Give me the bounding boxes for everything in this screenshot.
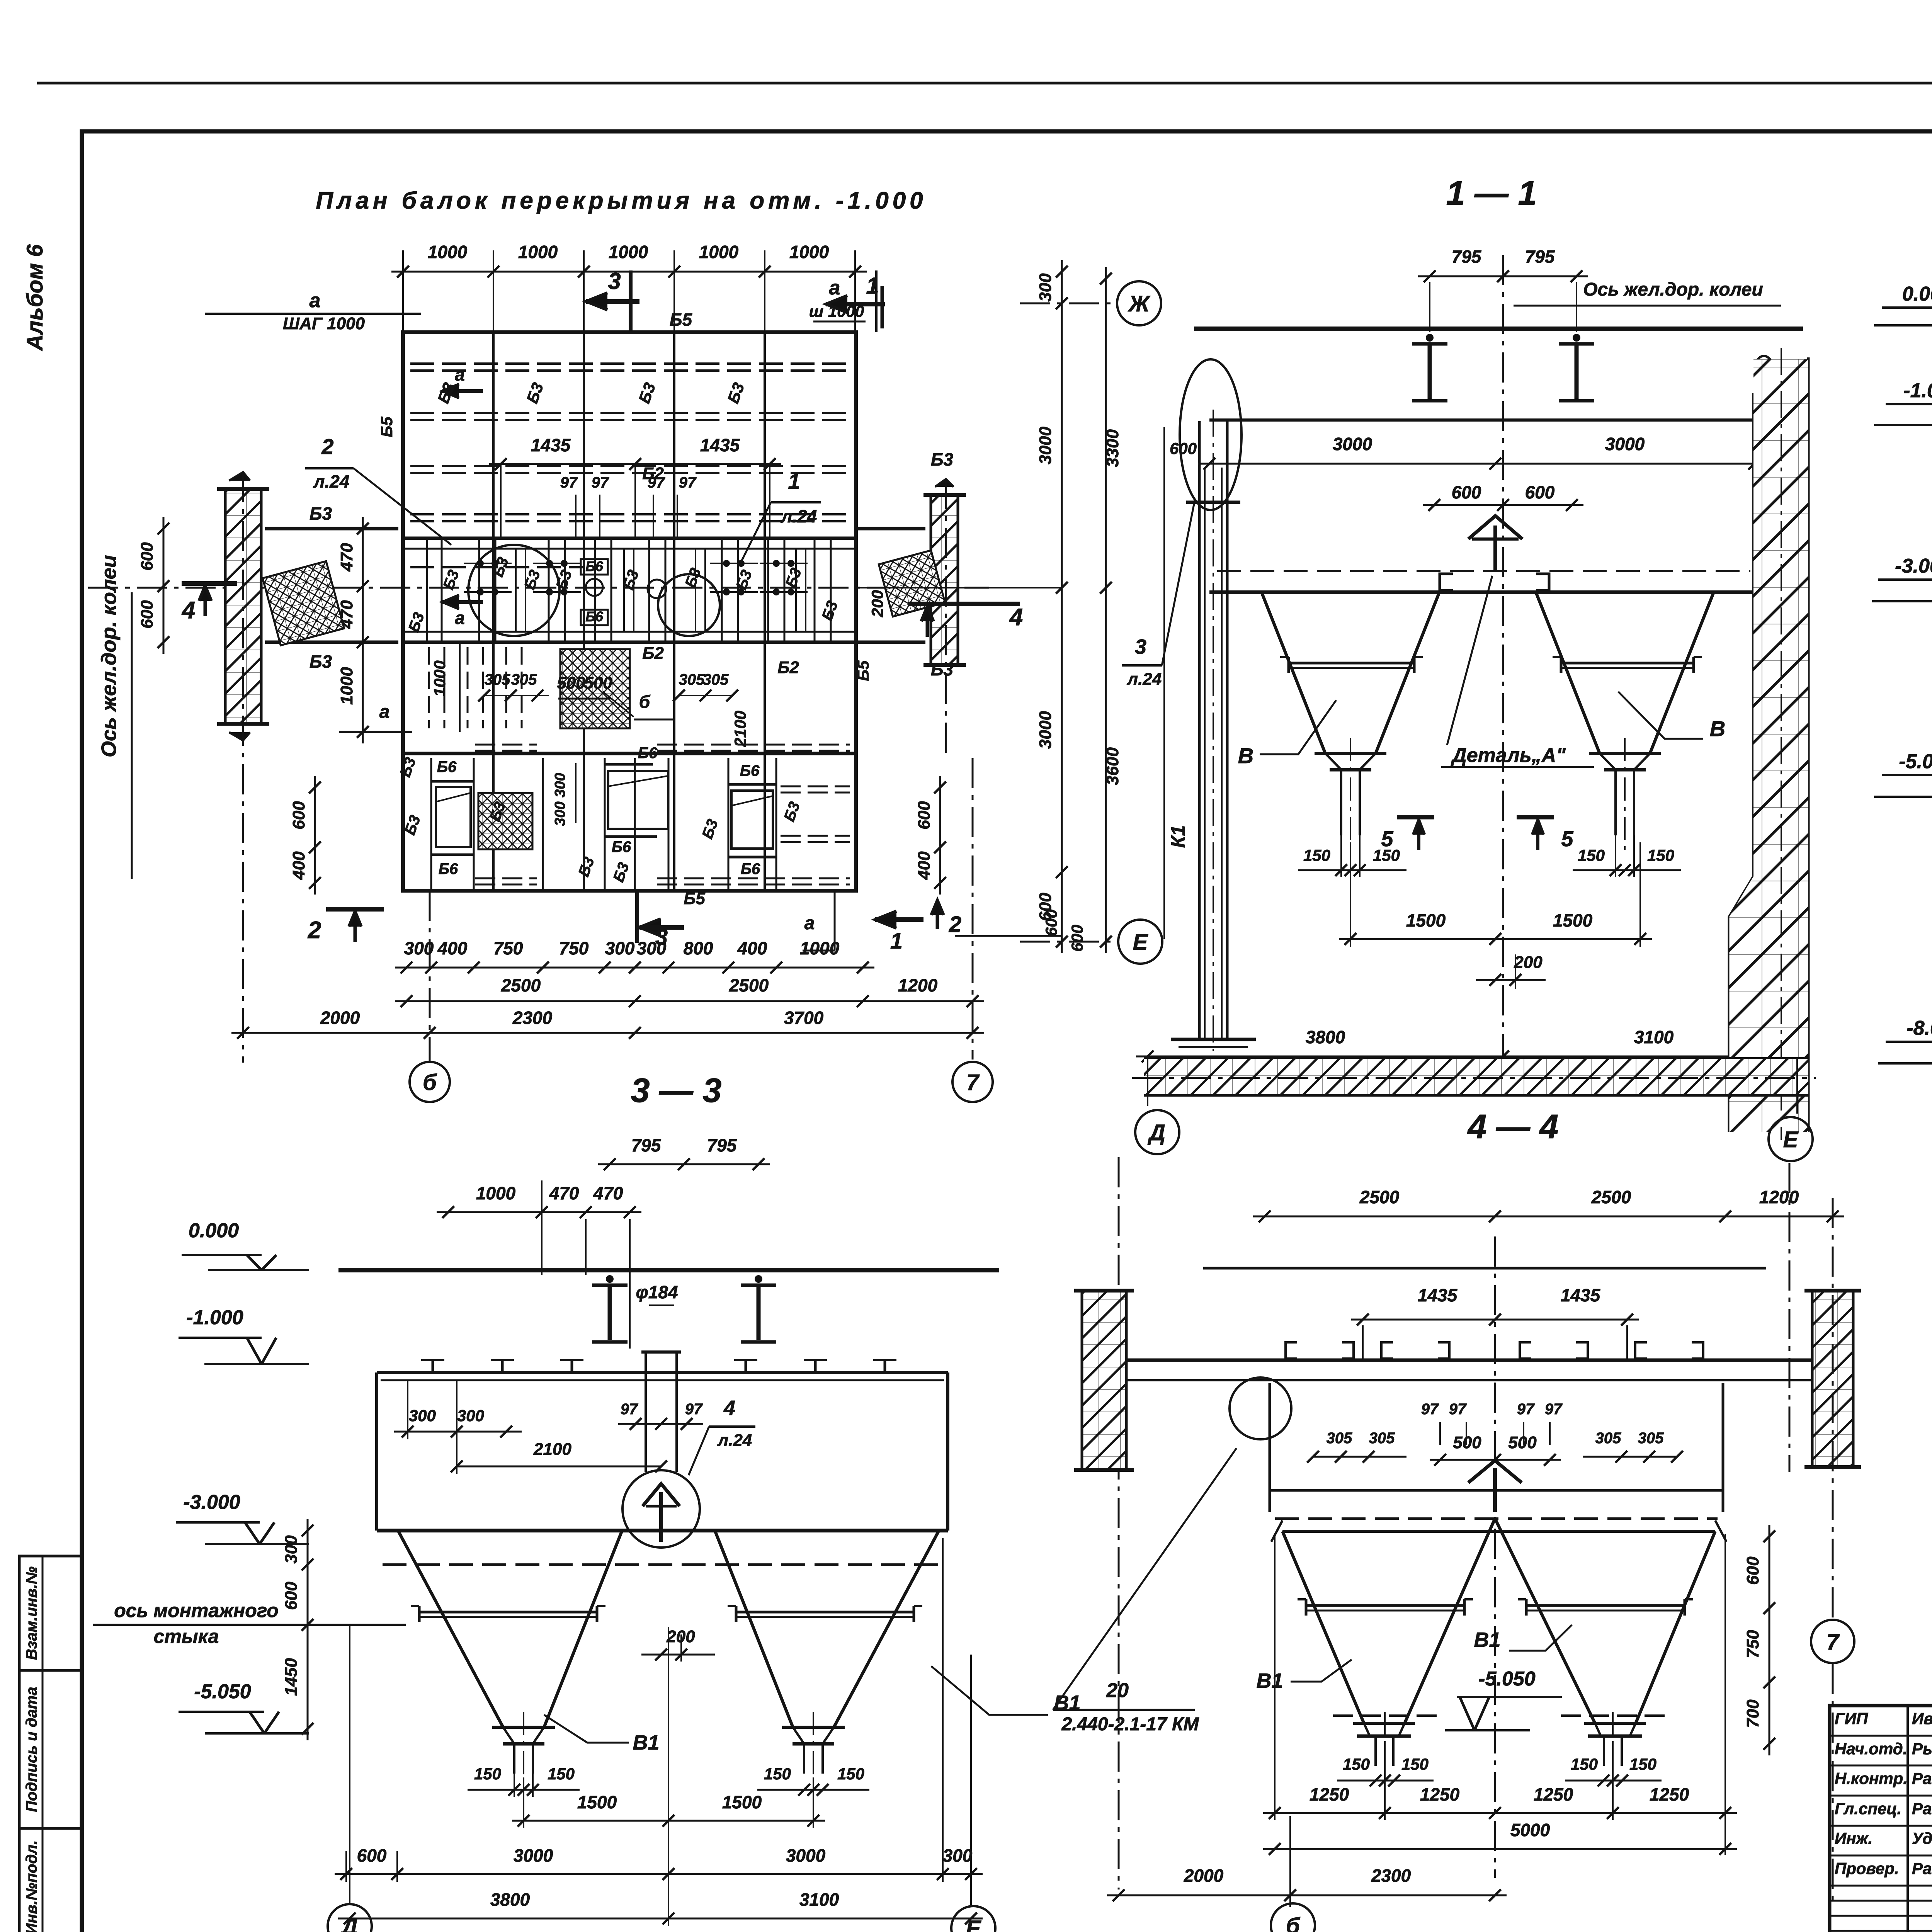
svg-text:-8.000: -8.000 <box>1906 1017 1932 1039</box>
title block signature grid <box>1830 1735 1932 1737</box>
svg-text:305: 305 <box>1369 1430 1395 1447</box>
small B6 boxes center <box>581 559 608 575</box>
svg-text:Е: Е <box>1133 930 1149 955</box>
svg-text:20: 20 <box>1106 1679 1129 1702</box>
top dim 2500 2500 1200 (4-4) <box>1253 1216 1844 1218</box>
svg-text:План балок перекрытия на от: План балок перекрытия на отм. -1.000 <box>316 187 927 214</box>
dashed level in tank (1-1) <box>1217 570 1750 572</box>
bottom dim chain row 1 <box>395 967 874 969</box>
chute arrow (4-4) <box>1468 1461 1522 1483</box>
svg-text:400: 400 <box>437 938 468 958</box>
chute (3-3) <box>645 1352 647 1472</box>
svg-text:Б2: Б2 <box>642 464 664 483</box>
tank bottom (1-1) <box>1209 590 1754 594</box>
svg-text:-5.050: -5.050 <box>194 1680 251 1703</box>
svg-text:Е: Е <box>966 1916 982 1932</box>
svg-text:470: 470 <box>337 600 356 629</box>
dim 1435 1435 (4-4) <box>1351 1319 1639 1321</box>
grid bubble E (row) <box>1118 920 1162 964</box>
svg-text:3000: 3000 <box>1036 427 1055 464</box>
svg-text:ось монтажного: ось монтажного <box>114 1600 278 1621</box>
svg-text:795: 795 <box>707 1135 737 1155</box>
svg-text:Б3: Б3 <box>310 651 332 672</box>
left vertical dims 600 400 <box>314 776 316 895</box>
svg-text:3800: 3800 <box>1306 1027 1345 1047</box>
svg-text:Рашевский: Рашевский <box>1912 1859 1932 1878</box>
svg-text:400: 400 <box>737 938 767 958</box>
left funnel B1 (4-4) <box>1282 1531 1364 1723</box>
svg-text:Б2: Б2 <box>777 658 799 677</box>
svg-text:a: a <box>310 289 321 312</box>
section cut 1 (top right) <box>826 302 885 306</box>
svg-text:305: 305 <box>1327 1430 1352 1447</box>
svg-text:2000: 2000 <box>1184 1866 1224 1886</box>
svg-text:4 — 4: 4 — 4 <box>1467 1107 1559 1146</box>
svg-text:600: 600 <box>1525 482 1555 502</box>
column K1 (1-1) <box>1198 421 1201 1039</box>
svg-text:Альбом 6: Альбом 6 <box>22 244 48 352</box>
svg-text:150: 150 <box>548 1765 575 1783</box>
ground line (4-4) <box>1203 1267 1766 1270</box>
svg-text:1250: 1250 <box>1650 1784 1689 1804</box>
svg-text:300: 300 <box>457 1406 484 1425</box>
top band dashed beams <box>410 362 850 365</box>
left funnel B1 (3-3) <box>398 1531 503 1727</box>
svg-text:Инж.: Инж. <box>1835 1829 1872 1847</box>
dim 795 795 (1-1) <box>1418 276 1588 277</box>
svg-text:1000: 1000 <box>518 242 558 262</box>
svg-text:a: a <box>455 364 465 384</box>
rail level line 0.000 (1-1) <box>1194 327 1803 331</box>
svg-text:б: б <box>639 692 651 712</box>
extension lines (1-1 dims) <box>1350 842 1351 947</box>
svg-text:400: 400 <box>289 851 308 880</box>
rail I-beam left (1-1) <box>1426 334 1434 342</box>
section cut 4 right <box>908 602 1020 606</box>
bolt clusters <box>477 560 484 567</box>
svg-text:2.440-2.1-17 КМ: 2.440-2.1-17 КМ <box>1061 1714 1199 1735</box>
section cut 3 (top) <box>586 299 639 304</box>
svg-text:2500: 2500 <box>729 975 769 995</box>
svg-text:97: 97 <box>1545 1401 1563 1418</box>
beams B3 crossing gap left <box>265 527 398 531</box>
svg-text:Б6: Б6 <box>612 838 631 855</box>
sub band below B2 <box>403 752 856 755</box>
svg-text:4: 4 <box>723 1396 735 1420</box>
row axis E dash segment <box>1020 941 1117 943</box>
central band (B2 beams with bolted joints) <box>403 537 856 540</box>
grid bubbles D E (3-3) <box>349 1625 350 1905</box>
svg-text:л.24: л.24 <box>1127 670 1162 689</box>
svg-text:a: a <box>379 702 390 722</box>
svg-text:1435: 1435 <box>1561 1285 1601 1305</box>
floor hatch (1-1) <box>1144 1057 1808 1060</box>
svg-text:ГИП: ГИП <box>1835 1709 1868 1728</box>
left wall (4-4) <box>1082 1291 1126 1470</box>
svg-text:-3.000: -3.000 <box>183 1491 240 1514</box>
balloon detail capsule on column top <box>1180 359 1242 510</box>
extension lines (3-3 dims) <box>523 1777 524 1828</box>
svg-text:2: 2 <box>949 912 961 937</box>
svg-text:3000: 3000 <box>786 1845 826 1866</box>
channel brackets on beam (4-4) <box>1286 1342 1297 1359</box>
svg-text:500: 500 <box>1453 1433 1481 1452</box>
svg-text:Инв.№подл.: Инв.№подл. <box>23 1840 40 1932</box>
svg-text:500: 500 <box>1508 1433 1537 1452</box>
svg-text:3300: 3300 <box>1103 429 1122 467</box>
B6 box 1 <box>436 787 471 847</box>
svg-text:1200: 1200 <box>898 975 938 995</box>
svg-text:750: 750 <box>1743 1630 1762 1658</box>
svg-text:φ184: φ184 <box>636 1282 678 1302</box>
dashed level (4-4) <box>1275 1517 1718 1520</box>
svg-text:-5.050: -5.050 <box>1478 1668 1536 1690</box>
center axis (4-4) <box>1494 1236 1496 1878</box>
dim 600 3000 3000 300 (3-3) <box>335 1873 983 1875</box>
svg-text:Б3: Б3 <box>931 449 954 469</box>
svg-text:200: 200 <box>1514 953 1543 972</box>
dim 1000 470 470 (3-3) <box>437 1211 641 1213</box>
svg-text:В1: В1 <box>1256 1669 1283 1692</box>
svg-text:В1: В1 <box>633 1731 659 1754</box>
left vertical dims 470 470 1000 <box>362 517 364 743</box>
svg-text:200: 200 <box>868 590 886 617</box>
svg-text:Н.контр.: Н.контр. <box>1835 1769 1908 1787</box>
svg-text:Б6: Б6 <box>585 558 603 574</box>
hatch patch sub band <box>560 649 630 728</box>
svg-text:ШАГ 1000: ШАГ 1000 <box>283 314 365 333</box>
svg-text:3: 3 <box>608 268 621 294</box>
left vertical dims 600 600 <box>163 517 165 654</box>
svg-text:Б5: Б5 <box>670 310 693 330</box>
svg-text:2: 2 <box>321 434 333 459</box>
svg-text:a: a <box>804 913 815 934</box>
svg-text:Б3: Б3 <box>931 659 954 679</box>
svg-text:3000: 3000 <box>1333 434 1372 454</box>
wall axis E line (4-4) <box>1789 1163 1791 1472</box>
svg-text:7: 7 <box>966 1070 980 1095</box>
svg-text:0.000: 0.000 <box>189 1219 239 1242</box>
sheet top edge line <box>37 82 1932 85</box>
svg-text:305: 305 <box>1638 1430 1664 1447</box>
rails (3-3) <box>606 1275 614 1283</box>
tank (4-4) <box>1270 1489 1723 1492</box>
plan grid verticals <box>492 332 495 891</box>
right wall (4-4) <box>1812 1291 1853 1467</box>
a cut mark central band <box>442 600 483 604</box>
svg-text:Ж: Ж <box>1128 291 1151 316</box>
svg-text:Удалова: Удалова <box>1912 1829 1932 1847</box>
svg-text:2500: 2500 <box>501 975 541 995</box>
svg-text:Ось жел.дор. колеи: Ось жел.дор. колеи <box>1583 279 1763 300</box>
grid bubble Zh <box>1117 281 1161 325</box>
section 5 marks (1-1) <box>1397 815 1434 820</box>
svg-text:150: 150 <box>1571 1755 1598 1773</box>
svg-text:В: В <box>1710 716 1725 741</box>
B6 box 2 <box>608 771 668 829</box>
svg-text:600: 600 <box>1170 439 1197 457</box>
tank top (1-1) <box>1209 418 1754 422</box>
svg-text:1000: 1000 <box>428 242 468 262</box>
svg-text:3100: 3100 <box>1634 1027 1674 1047</box>
svg-text:3800: 3800 <box>490 1889 530 1910</box>
left funnel B (1-1) <box>1262 592 1325 753</box>
svg-text:1250: 1250 <box>1310 1784 1349 1804</box>
dim 3800 3100 (3-3) <box>338 1918 983 1920</box>
joint detail circle left <box>468 545 560 636</box>
chute arrow detail A (1-1) <box>1468 516 1522 539</box>
right funnel B1 (4-4) <box>1636 1531 1715 1723</box>
right vertical dims 600 400 600 <box>939 776 941 895</box>
section cut 3 bottom <box>635 893 639 943</box>
svg-text:1250: 1250 <box>1420 1784 1460 1804</box>
B6 box 3 <box>731 791 773 849</box>
wall axis D line (4-4) <box>1118 1157 1120 1889</box>
a cut mark top band <box>442 389 483 393</box>
svg-text:1500: 1500 <box>1553 910 1593 930</box>
svg-text:600: 600 <box>282 1582 301 1610</box>
svg-text:5000: 5000 <box>1510 1820 1550 1840</box>
right funnel B1 (3-3) <box>715 1531 793 1727</box>
svg-text:795: 795 <box>631 1135 662 1155</box>
svg-text:1435: 1435 <box>700 435 740 455</box>
svg-text:1000: 1000 <box>476 1183 516 1203</box>
svg-text:600: 600 <box>138 542 156 571</box>
right vertical chain 600 750 700 (4-4) <box>1769 1525 1770 1755</box>
grid bubbles D E (bottom of 1-1) <box>1147 1059 1148 1106</box>
svg-text:3100: 3100 <box>799 1889 839 1910</box>
plan top dimension chain 1000 x5 <box>391 271 867 273</box>
svg-text:300: 300 <box>552 801 568 826</box>
svg-text:305: 305 <box>703 671 729 688</box>
crosshatch patch left <box>263 561 344 645</box>
svg-text:470: 470 <box>337 543 356 572</box>
circled arrow detail (3-3) <box>622 1470 700 1548</box>
svg-text:Е: Е <box>1783 1127 1799 1152</box>
svg-text:150: 150 <box>1343 1755 1370 1773</box>
svg-text:305: 305 <box>485 671 510 688</box>
plan outline <box>403 332 856 891</box>
left vertical chain 300 600 1450 (3-3) <box>307 1519 309 1740</box>
dim 1250 x4 (4-4) <box>1263 1812 1737 1814</box>
svg-text:1200: 1200 <box>1759 1187 1799 1207</box>
grid bubble b (4-4) <box>1289 1824 1291 1903</box>
svg-text:2100: 2100 <box>731 711 749 747</box>
svg-text:л.24: л.24 <box>313 471 350 492</box>
svg-text:300: 300 <box>552 773 568 797</box>
svg-text:2: 2 <box>308 917 321 944</box>
svg-text:-1.000: -1.000 <box>1903 379 1932 402</box>
section cut 4 left <box>182 581 237 586</box>
svg-text:150: 150 <box>1401 1755 1429 1773</box>
svg-text:a: a <box>455 608 465 628</box>
main title block <box>1830 1706 1932 1932</box>
svg-text:Д: Д <box>1147 1120 1165 1145</box>
svg-text:150: 150 <box>1629 1755 1656 1773</box>
joint detail circle right <box>658 574 720 636</box>
dim 600 600 (1-1) <box>1423 504 1583 506</box>
dim 2000 2300 (4-4) <box>1107 1895 1507 1896</box>
svg-text:600: 600 <box>138 600 156 629</box>
svg-text:0.000: 0.000 <box>1902 283 1932 305</box>
svg-text:Нач.отд.: Нач.отд. <box>1835 1740 1907 1758</box>
svg-text:305: 305 <box>679 671 705 688</box>
extra dashed row above central band <box>410 566 584 568</box>
svg-text:1435: 1435 <box>531 435 571 455</box>
svg-text:Б6: Б6 <box>439 861 458 878</box>
svg-text:3000: 3000 <box>1036 711 1055 749</box>
svg-text:97: 97 <box>1517 1401 1535 1418</box>
svg-text:Гл.спец.: Гл.спец. <box>1835 1799 1901 1818</box>
svg-text:600: 600 <box>1068 925 1086 952</box>
bottom band with B6 girders <box>430 758 432 891</box>
svg-text:300: 300 <box>605 938 635 958</box>
section cuts 1 2 bottom-right <box>875 917 923 922</box>
svg-text:470: 470 <box>549 1183 579 1203</box>
tank (3-3) <box>377 1371 948 1374</box>
svg-text:150: 150 <box>1578 846 1605 864</box>
bottom dim chain row 2 <box>395 1000 984 1002</box>
svg-text:3600: 3600 <box>1103 747 1122 785</box>
svg-text:97: 97 <box>621 1401 638 1418</box>
svg-text:л.24: л.24 <box>781 506 817 526</box>
svg-text:Б6: Б6 <box>741 861 760 878</box>
svg-text:3000: 3000 <box>1605 434 1645 454</box>
svg-text:б: б <box>1286 1913 1301 1932</box>
svg-text:В1: В1 <box>1474 1628 1500 1651</box>
svg-text:Б5: Б5 <box>378 417 396 437</box>
extension lines (4-4 dims) <box>1274 1534 1276 1820</box>
svg-text:1250: 1250 <box>1534 1784 1573 1804</box>
svg-text:150: 150 <box>1373 846 1400 864</box>
svg-text:Б3: Б3 <box>310 503 332 524</box>
right wall (1-1) <box>1729 393 1753 1132</box>
funnel support line (4-4) <box>1282 1530 1715 1533</box>
svg-text:600: 600 <box>1036 893 1055 921</box>
svg-text:1000: 1000 <box>337 667 356 705</box>
left wall section (hatched) <box>225 489 261 724</box>
svg-text:700: 700 <box>1743 1699 1762 1728</box>
svg-text:1000: 1000 <box>789 242 829 262</box>
vertical chain B 3300/3600 <box>1105 267 1107 953</box>
svg-text:Иванова: Иванова <box>1912 1709 1932 1728</box>
svg-text:600: 600 <box>357 1845 387 1866</box>
svg-text:3000: 3000 <box>514 1845 553 1866</box>
svg-text:97: 97 <box>1421 1401 1439 1418</box>
svg-text:Б5: Б5 <box>684 889 705 908</box>
svg-text:305: 305 <box>511 671 537 688</box>
svg-text:Б2: Б2 <box>642 644 664 663</box>
svg-text:750: 750 <box>559 938 589 958</box>
right funnel B (1-1) <box>1536 592 1600 753</box>
svg-text:600: 600 <box>1743 1556 1762 1585</box>
svg-text:750: 750 <box>493 938 523 958</box>
svg-text:стыка: стыка <box>154 1626 219 1647</box>
svg-text:2500: 2500 <box>1359 1187 1400 1207</box>
vertical chain A 300/3000/3000/600 <box>1061 260 1063 953</box>
dim 1500 1500 (1-1) <box>1339 938 1652 940</box>
svg-text:Подпись и дата: Подпись и дата <box>23 1687 40 1812</box>
svg-text:2100: 2100 <box>533 1440 571 1459</box>
dim 1435 1435 <box>489 463 781 465</box>
svg-text:1500: 1500 <box>577 1792 617 1812</box>
dim 1500 1500 (3-3) <box>512 1820 825 1822</box>
svg-text:97: 97 <box>560 474 578 491</box>
right wall section (hatched) <box>931 495 958 665</box>
dim 3800 3100 (1-1) <box>1136 1056 1809 1058</box>
joint detail circle (4-4) <box>1230 1378 1291 1439</box>
svg-text:Рыбкина: Рыбкина <box>1912 1740 1932 1758</box>
svg-text:Ось жел.дор. колеи: Ось жел.дор. колеи <box>97 555 121 757</box>
svg-text:1: 1 <box>890 929 903 954</box>
svg-text:-5.050: -5.050 <box>1899 750 1932 773</box>
rail axis horizontal dash-dot through plan <box>88 587 989 589</box>
main beam (4-4) <box>1126 1359 1812 1362</box>
svg-text:150: 150 <box>1647 846 1674 864</box>
dashed rows bottom band <box>475 744 537 746</box>
svg-text:150: 150 <box>764 1765 791 1783</box>
svg-text:400: 400 <box>915 851 934 880</box>
svg-text:300: 300 <box>282 1535 301 1564</box>
svg-text:2300: 2300 <box>1371 1866 1411 1886</box>
svg-text:7: 7 <box>1827 1629 1840 1655</box>
svg-text:600: 600 <box>289 801 308 830</box>
svg-text:Рашевский: Рашевский <box>1912 1799 1932 1818</box>
svg-text:1435: 1435 <box>1418 1285 1458 1305</box>
svg-text:500: 500 <box>584 673 612 692</box>
dim 3000 3000 (1-1) <box>1198 463 1766 465</box>
svg-text:97: 97 <box>592 474 609 491</box>
svg-text:В: В <box>1238 743 1253 768</box>
crosshatch patch right <box>879 550 945 616</box>
svg-text:600: 600 <box>1452 482 1481 502</box>
svg-text:1000: 1000 <box>430 660 449 696</box>
svg-text:4: 4 <box>1009 604 1023 631</box>
svg-text:2500: 2500 <box>1591 1187 1631 1207</box>
grid bubble b (plan) <box>429 891 431 1061</box>
section cut 2 bottom-left <box>326 907 384 912</box>
track axis (1-1) <box>1502 255 1504 1066</box>
svg-text:К1: К1 <box>1167 825 1189 848</box>
svg-text:1000: 1000 <box>699 242 739 262</box>
svg-text:150: 150 <box>474 1765 501 1783</box>
svg-text:150: 150 <box>1303 846 1330 864</box>
svg-text:-1.000: -1.000 <box>186 1306 243 1329</box>
row axis Zh dash segment <box>1020 303 1116 304</box>
svg-text:500: 500 <box>557 673 585 692</box>
svg-text:Б6: Б6 <box>740 762 760 779</box>
svg-text:Б5: Б5 <box>854 660 872 681</box>
rail ground line (3-3) <box>338 1268 999 1272</box>
svg-text:150: 150 <box>837 1765 864 1783</box>
svg-text:Деталь„А": Деталь„А" <box>1451 744 1566 767</box>
svg-text:3: 3 <box>1135 635 1146 658</box>
hatch patch bottom band <box>478 793 532 849</box>
left margin stamp strip <box>19 1556 82 1670</box>
svg-text:Б6: Б6 <box>638 745 658 762</box>
svg-text:б: б <box>423 1070 437 1095</box>
dim 795 795 (3-3) <box>598 1163 770 1165</box>
svg-text:305: 305 <box>1595 1430 1621 1447</box>
svg-text:5: 5 <box>1561 827 1573 851</box>
tank bottom (3-3) <box>377 1529 948 1532</box>
svg-text:Д: Д <box>340 1914 358 1932</box>
svg-text:-3.000: -3.000 <box>1895 555 1932 577</box>
svg-text:300: 300 <box>943 1845 973 1866</box>
svg-text:1500: 1500 <box>722 1792 762 1812</box>
svg-text:795: 795 <box>1525 247 1555 267</box>
svg-text:1000: 1000 <box>800 938 840 958</box>
